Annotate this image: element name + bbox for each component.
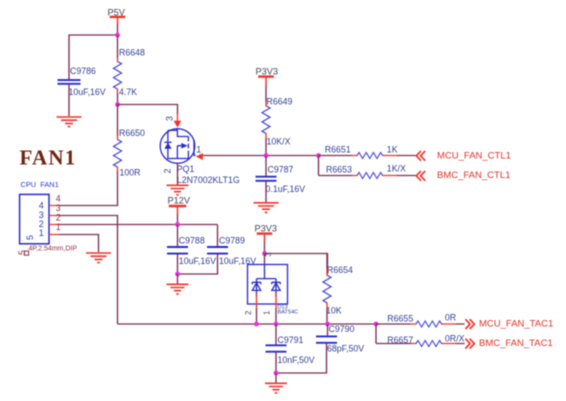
svg-text:1K/X: 1K/X (387, 164, 406, 174)
wire R6654 top stem (326, 254, 329, 269)
svg-text:2: 2 (162, 168, 172, 173)
wire ground stem C9791 (275, 373, 277, 383)
wire FAN1 pin1 to ground (59, 235, 99, 253)
PQ1 body arrow (181, 143, 187, 149)
power P5V (108, 7, 126, 25)
svg-text:C9786: C9786 (70, 66, 96, 76)
pin 5 square pad (24, 251, 28, 255)
wire C9789 branch (178, 225, 218, 275)
node drain junction (115, 102, 120, 107)
svg-text:4: 4 (56, 194, 61, 204)
svg-text:FAN1: FAN1 (20, 146, 77, 170)
svg-text:BMC_FAN_CTL1: BMC_FAN_CTL1 (437, 170, 510, 181)
svg-text:0R/X: 0R/X (445, 334, 465, 344)
svg-text:C9790: C9790 (329, 324, 355, 334)
connector pin numbers inside (39, 200, 44, 238)
PQ1 body diode triangle (164, 143, 171, 149)
PQ1 gate pin1 arrow (196, 153, 203, 160)
wire R6650 bottom to FAN1 pin4 (59, 172, 118, 206)
wire P3V3 bottom stem (264, 242, 266, 254)
wire PQ1 source to ground (177, 163, 179, 184)
wire R6648 bottom stem (117, 94, 119, 105)
capacitor C9786 (58, 66, 106, 97)
svg-text:R6655: R6655 (387, 314, 413, 324)
resistor R6648 (114, 48, 146, 98)
wire P12V rail (59, 224, 218, 226)
resistor R6650 (114, 128, 146, 178)
resistor R6655 (376, 312, 465, 327)
capacitor C9789 (207, 236, 256, 267)
svg-text:1: 1 (196, 145, 201, 155)
wire P3V3 to R6654 (265, 254, 328, 275)
ground below FAN1 pin1 (86, 253, 111, 263)
transistor PQ1 body (160, 129, 195, 164)
svg-text:3: 3 (264, 252, 273, 256)
svg-text:4P,2.54mm,DIP: 4P,2.54mm,DIP (29, 246, 78, 253)
svg-text:10K/X: 10K/X (267, 137, 291, 147)
ground below PQ1 (167, 185, 189, 195)
resistor R6649 (262, 97, 293, 147)
capacitor C9788 (167, 236, 216, 267)
wire C9788 top stem (177, 225, 179, 247)
pin numbers outside (56, 194, 61, 232)
sheet connector MCU_FAN_CTL1 (416, 151, 425, 161)
diode D13 BAT54C body (248, 265, 288, 305)
sheet connector BMC_FAN_CTL1 (416, 171, 425, 181)
svg-text:C9789: C9789 (219, 236, 245, 246)
wire D13 top stem (264, 254, 266, 265)
svg-text:MCU_FAN_CTL1: MCU_FAN_CTL1 (437, 150, 511, 161)
capacitor C9791 (266, 335, 315, 365)
ground below C9786 (57, 117, 82, 127)
svg-text:MCU_FAN_TAC1: MCU_FAN_TAC1 (479, 318, 553, 329)
svg-text:L2N7002KLT1G: L2N7002KLT1G (177, 175, 240, 185)
svg-text:10uF,16V: 10uF,16V (179, 256, 216, 266)
wire node to MOSFET drain (118, 105, 178, 115)
svg-text:R6651: R6651 (325, 144, 351, 154)
svg-text:0R: 0R (445, 312, 456, 322)
wire C9786 bottom (68, 85, 70, 117)
ground below C9791 (265, 383, 287, 393)
ground below C9787 (254, 203, 279, 213)
power P3V3 top (256, 66, 278, 86)
svg-text:10nF,50V: 10nF,50V (278, 355, 315, 365)
svg-text:PQ1: PQ1 (177, 164, 195, 174)
svg-text:C9788: C9788 (179, 236, 205, 246)
node P12V junction (175, 222, 180, 227)
wire gate rail (203, 155, 319, 157)
svg-text:R6649: R6649 (267, 97, 293, 107)
svg-text:0.1uF,16V: 0.1uF,16V (266, 184, 306, 194)
resistor R6651 (319, 144, 416, 158)
FAN1 pin stubs (49, 206, 59, 235)
svg-text:R6654: R6654 (327, 265, 353, 275)
transistor Q PQ1 pin3 arrow (174, 121, 182, 128)
node D13 pin2 junction (254, 322, 259, 327)
svg-text:1K: 1K (387, 144, 398, 154)
node P5V junction (115, 33, 120, 38)
svg-text:C9791: C9791 (278, 335, 304, 345)
node C9791 bottom junction (274, 371, 279, 376)
wire TAC rail (118, 323, 377, 325)
wire R6650 top stem (117, 105, 119, 136)
resistor R6654 (323, 265, 353, 316)
svg-text:P12V: P12V (168, 196, 191, 206)
svg-text:3: 3 (165, 116, 175, 121)
svg-text:1: 1 (263, 311, 272, 315)
wire CTL branch vertical (318, 156, 320, 176)
svg-text:5: 5 (25, 235, 35, 240)
wire FAN1 pin3 tach vertical (59, 216, 118, 325)
node R6654 junction (325, 322, 330, 327)
connector FAN1 body (20, 194, 49, 243)
D13 pin stubs (257, 293, 277, 309)
svg-text:CPU FAN1: CPU FAN1 (21, 180, 59, 189)
node P3V3 bottom junction (262, 251, 267, 256)
svg-text:10uF,16V: 10uF,16V (69, 87, 106, 97)
wire R6654 bottom stem (326, 309, 328, 324)
wire R6648 top stem (117, 35, 119, 58)
svg-text:1: 1 (56, 222, 61, 232)
resistor R6653 (319, 164, 416, 179)
resistor R6657 (376, 334, 465, 347)
svg-text:R6650: R6650 (119, 128, 145, 138)
wire R6649 stems (265, 86, 267, 156)
svg-text:R6653: R6653 (326, 165, 352, 175)
wire top rail to C9786 (69, 35, 118, 80)
sheet connector MCU_FAN_TAC1 (465, 319, 474, 329)
svg-text:1: 1 (39, 228, 44, 238)
svg-text:4: 4 (39, 200, 44, 210)
capacitor C9790 (316, 324, 364, 354)
svg-text:10K: 10K (326, 306, 342, 316)
svg-text:P3V3: P3V3 (255, 224, 277, 234)
svg-text:R6648: R6648 (119, 48, 145, 58)
svg-text:2: 2 (56, 212, 61, 222)
wire D13 anodes to rail (257, 309, 277, 325)
wire P12V stem (177, 215, 179, 225)
wire C9791 stems (275, 324, 277, 373)
power P12V (168, 196, 191, 216)
svg-text:BMC_FAN_TAC1: BMC_FAN_TAC1 (479, 338, 553, 349)
sheet connector BMC_FAN_TAC1 (465, 339, 474, 349)
node C9788 bottom junction (175, 272, 180, 277)
svg-text:68pF,50V: 68pF,50V (327, 344, 364, 354)
ground below C9788 (167, 284, 189, 294)
svg-text:P3V3: P3V3 (256, 66, 278, 76)
svg-text:BAT54C: BAT54C (278, 310, 299, 316)
wire P5V stem (117, 25, 119, 35)
wire C9787 stems (265, 156, 267, 203)
capacitor C9787 (256, 165, 306, 195)
node R6649 junction (264, 153, 269, 158)
node D13 pin1 junction (274, 322, 279, 327)
node CTL branch junction (316, 153, 321, 158)
wire C9790 stems (276, 324, 328, 373)
wire TAC branch vertical (375, 324, 377, 344)
svg-text:100R: 100R (120, 168, 141, 178)
wire C9788 bottom stem (177, 254, 179, 274)
svg-text:2: 2 (244, 311, 253, 315)
wire ground stem C9788 (177, 274, 179, 284)
power P3V3 bottom (255, 224, 277, 243)
svg-text:C9787: C9787 (268, 165, 294, 175)
svg-text:4.7K: 4.7K (119, 87, 137, 97)
node TAC branch junction (374, 322, 379, 327)
